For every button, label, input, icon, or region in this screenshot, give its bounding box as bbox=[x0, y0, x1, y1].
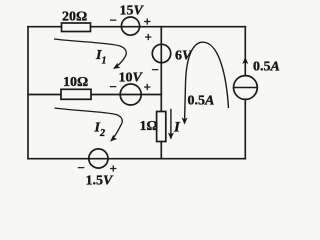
svg-text:1Ω: 1Ω bbox=[140, 119, 158, 134]
voltage source V3 6V bbox=[145, 30, 194, 78]
resistor 10ohm bbox=[61, 75, 91, 99]
svg-text:20Ω: 20Ω bbox=[62, 10, 87, 25]
wire right vertical lower bbox=[244, 99, 246, 159]
resistor 1ohm bbox=[140, 112, 166, 142]
wire bottom row bbox=[28, 158, 245, 160]
svg-text:+: + bbox=[144, 80, 151, 95]
wire left vertical bbox=[27, 27, 29, 159]
svg-text:6V: 6V bbox=[175, 49, 193, 64]
svg-text:−: − bbox=[110, 79, 117, 94]
wire top row segment A bbox=[28, 26, 62, 28]
wire top row segment B bbox=[91, 26, 246, 28]
wire right vertical upper bbox=[244, 27, 246, 76]
svg-text:10Ω: 10Ω bbox=[63, 75, 88, 90]
resistor 20ohm bbox=[62, 10, 91, 32]
voltage source V2 10V bbox=[110, 71, 151, 106]
wire row2 segment A bbox=[28, 94, 61, 96]
voltage source V4 1.5V bbox=[78, 149, 117, 189]
svg-text:I: I bbox=[173, 120, 181, 136]
svg-text:−: − bbox=[78, 160, 85, 175]
wire row2 segment B bbox=[91, 94, 161, 96]
svg-text:I2: I2 bbox=[94, 121, 105, 140]
svg-text:10V: 10V bbox=[119, 71, 144, 86]
voltage source V1 15V bbox=[110, 4, 151, 36]
svg-text:+: + bbox=[145, 30, 152, 45]
svg-text:0.5A: 0.5A bbox=[253, 60, 280, 75]
svg-text:15V: 15V bbox=[120, 4, 145, 19]
wire middle vertical upper bbox=[160, 27, 162, 112]
wire middle vertical lower bbox=[160, 142, 162, 159]
svg-text:0.5A: 0.5A bbox=[188, 94, 215, 109]
svg-text:1.5V: 1.5V bbox=[86, 174, 115, 189]
current source 0.5A (right branch) bbox=[234, 58, 280, 99]
svg-text:−: − bbox=[110, 13, 117, 28]
current arrow I1 bbox=[54, 39, 126, 68]
svg-text:+: + bbox=[144, 14, 151, 29]
current arrow I2 bbox=[55, 108, 123, 141]
loop arrow 0.5A (middle branch) bbox=[185, 42, 229, 123]
current arrow I (through 1ohm) bbox=[171, 109, 181, 139]
svg-text:−: − bbox=[152, 62, 159, 77]
svg-text:I1: I1 bbox=[95, 48, 106, 67]
